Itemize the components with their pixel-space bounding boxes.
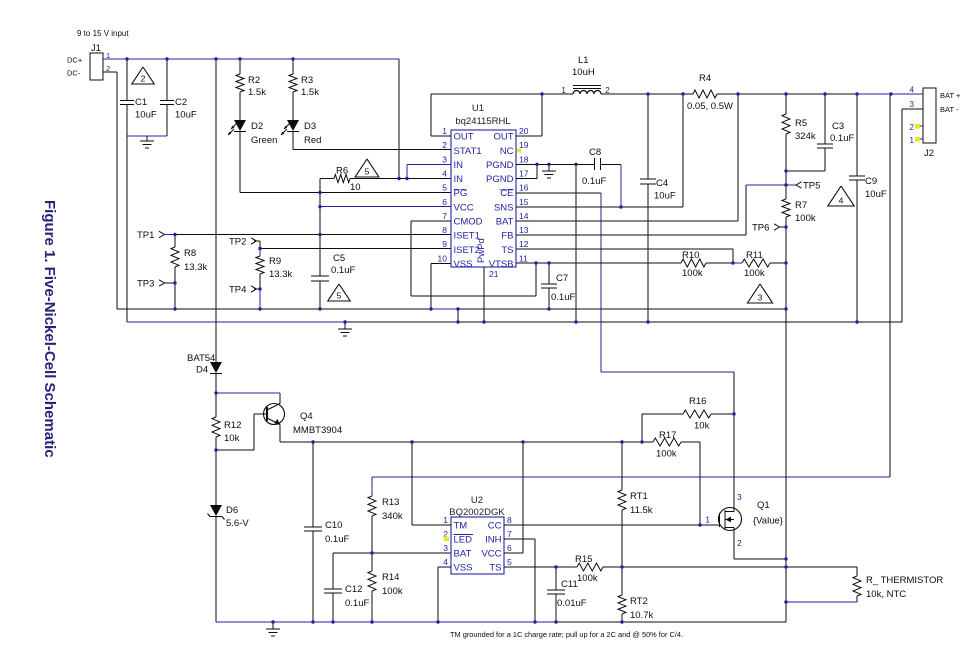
svg-text:1: 1 (443, 515, 448, 525)
svg-text:10uF: 10uF (135, 110, 157, 121)
svg-text:9 to 15 V input: 9 to 15 V input (77, 29, 129, 38)
svg-text:PGND: PGND (486, 160, 514, 171)
resistor R6 (320, 166, 451, 194)
wire C8 to SNS (620, 164, 622, 207)
wire J2 pin4 column (889, 94, 891, 477)
resistor R11 (733, 250, 786, 279)
svg-text:TP5: TP5 (803, 181, 820, 192)
capacitor C12 (324, 584, 369, 622)
svg-text:BAT54: BAT54 (187, 353, 215, 364)
wire bottom gnd bus (216, 621, 786, 623)
svg-text:10k: 10k (224, 433, 240, 444)
ground PGND (542, 164, 556, 178)
svg-text:CC: CC (488, 521, 502, 532)
svg-text:BAT: BAT (454, 549, 472, 560)
svg-text:5: 5 (365, 167, 370, 177)
svg-text:0.1uF: 0.1uF (325, 534, 349, 545)
wire IN pin3 jog (407, 164, 451, 178)
svg-text:324k: 324k (795, 131, 816, 142)
svg-text:TM: TM (454, 521, 468, 532)
wire VSS bus (117, 308, 786, 310)
svg-text:6: 6 (442, 197, 447, 207)
wire R12 to D6 (215, 450, 217, 505)
connector J2 (923, 88, 936, 159)
svg-text:D2: D2 (251, 121, 263, 132)
wire L1 left (431, 93, 573, 95)
op-amp U1 bq24115RHL (438, 103, 529, 279)
svg-text:VSS: VSS (454, 259, 473, 270)
wire STAT1 row (293, 149, 451, 151)
svg-text:FB: FB (501, 231, 513, 242)
svg-text:R16: R16 (689, 396, 706, 407)
wire TM riser (412, 442, 451, 525)
svg-text:NC: NC (500, 146, 514, 157)
svg-text:D6: D6 (226, 505, 238, 516)
wire U1 pin21 stub (483, 267, 485, 322)
svg-text:SNS: SNS (494, 202, 514, 213)
svg-text:11: 11 (519, 253, 528, 263)
J2 pin 3 number (910, 100, 915, 109)
wire CMOD loop (411, 221, 536, 296)
svg-text:20: 20 (519, 126, 529, 136)
svg-text:C11: C11 (561, 579, 578, 590)
resistor R12 (212, 393, 241, 450)
svg-text:{Value}: {Value} (753, 516, 783, 527)
svg-text:Q4: Q4 (300, 411, 313, 422)
svg-text:3: 3 (737, 492, 742, 502)
svg-text:5: 5 (337, 291, 342, 301)
LED D3 (281, 120, 321, 150)
connector J1 (90, 43, 103, 80)
resistor R7 (782, 199, 816, 263)
svg-text:R4: R4 (699, 73, 711, 84)
svg-text:L1: L1 (578, 55, 589, 66)
svg-text:MMBT3904: MMBT3904 (293, 425, 342, 436)
test point TP4 (229, 285, 260, 296)
note TM charge rate (450, 630, 683, 639)
wire VCC riser U2 (504, 442, 523, 553)
svg-text:10: 10 (438, 253, 448, 263)
svg-text:12: 12 (519, 239, 529, 249)
wire VCC row (320, 206, 451, 208)
wire ISET1 row (175, 234, 451, 236)
note triangle 4 (828, 186, 854, 206)
svg-text:C8: C8 (589, 147, 601, 158)
svg-text:10uF: 10uF (865, 189, 887, 200)
svg-text:1: 1 (910, 136, 915, 145)
wire OUT loop (431, 94, 542, 136)
svg-text:J1: J1 (91, 43, 101, 54)
svg-text:Green: Green (251, 135, 277, 146)
svg-text:INH: INH (485, 535, 502, 546)
wire D4 column (215, 59, 217, 362)
svg-text:2: 2 (910, 123, 915, 132)
svg-text:1.5k: 1.5k (248, 87, 266, 98)
svg-text:R9: R9 (269, 256, 281, 267)
svg-text:C12: C12 (345, 584, 362, 595)
capacitor C2 (160, 59, 197, 136)
svg-text:OUT: OUT (493, 132, 513, 143)
svg-text:0.1uF: 0.1uF (331, 265, 355, 276)
svg-text:R7: R7 (795, 200, 807, 211)
resistor R8 (171, 235, 207, 310)
svg-text:14: 14 (519, 211, 529, 221)
svg-text:R17: R17 (659, 430, 676, 441)
svg-text:13.3k: 13.3k (184, 262, 207, 273)
transistor Q1 (705, 492, 783, 548)
wire thermistor return (786, 601, 857, 603)
test point TP6 (752, 223, 786, 234)
wire GND bus (127, 321, 902, 323)
svg-text:C5: C5 (333, 253, 345, 264)
J1 pin 2 number (106, 64, 110, 73)
svg-text:TS: TS (489, 563, 501, 574)
svg-text:Red: Red (304, 135, 321, 146)
wire TS row U1 (516, 249, 733, 263)
note triangle 2 (132, 67, 154, 84)
svg-text:CMOD: CMOD (454, 217, 483, 228)
svg-text:R10: R10 (682, 250, 699, 261)
test point TP5 (786, 181, 820, 192)
svg-text:C10: C10 (325, 520, 342, 531)
wire FB column mid (785, 309, 787, 477)
svg-text:7: 7 (442, 211, 447, 221)
svg-text:5.6-V: 5.6-V (226, 518, 249, 529)
wire R11 column to bus (785, 263, 787, 309)
svg-text:C7: C7 (556, 273, 568, 284)
wire VTSB row (516, 262, 681, 264)
svg-text:LED: LED (454, 535, 473, 546)
resistor R10 (681, 250, 733, 279)
svg-text:18: 18 (519, 154, 529, 164)
svg-text:0.05, 0.5W: 0.05, 0.5W (687, 101, 733, 112)
test point TP2 (229, 237, 260, 249)
wire TS row U2 (504, 566, 786, 568)
svg-text:R_ THERMISTOR: R_ THERMISTOR (866, 575, 943, 586)
resistor R4 (687, 73, 733, 112)
svg-text:DC-: DC- (67, 69, 81, 78)
svg-text:2: 2 (737, 538, 742, 548)
svg-text:OUT: OUT (454, 132, 474, 143)
figure title (41, 200, 58, 458)
label DC+ (67, 56, 83, 65)
svg-text:TP2: TP2 (229, 237, 246, 248)
svg-text:100k: 100k (682, 268, 703, 279)
svg-text:PG: PG (454, 188, 468, 199)
svg-text:15: 15 (519, 197, 529, 207)
capacitor C5 (311, 193, 355, 310)
svg-text:RT1: RT1 (630, 491, 648, 502)
svg-text:100k: 100k (744, 268, 765, 279)
svg-text:R11: R11 (746, 250, 763, 261)
wire PG row (240, 192, 451, 194)
svg-text:0.1uF: 0.1uF (345, 598, 369, 609)
wire J2 pin3 (902, 109, 923, 322)
svg-text:R13: R13 (382, 497, 399, 508)
wire U1 VSS pin10 (431, 263, 451, 309)
svg-text:U2: U2 (471, 495, 483, 506)
note triangle 5 at C5 (328, 284, 350, 301)
svg-text:5: 5 (442, 183, 447, 193)
svg-text:1.5k: 1.5k (301, 87, 319, 98)
wire Q4 base (216, 414, 254, 450)
diode D6 zener (208, 505, 250, 622)
capacitor C8 (582, 147, 606, 187)
ground input caps (140, 136, 154, 148)
svg-text:16: 16 (519, 183, 529, 193)
capacitor C4 (640, 94, 676, 322)
transistor Q4 (254, 404, 342, 443)
wire Q1 source column (785, 477, 787, 622)
capacitor C1 (120, 59, 157, 136)
J1 pin 1 number (106, 51, 110, 60)
svg-text:8: 8 (442, 225, 447, 235)
svg-text:100k: 100k (382, 586, 403, 597)
svg-text:TP1: TP1 (137, 230, 154, 241)
diode D4 BAT54 (187, 353, 222, 393)
svg-text:0.01uF: 0.01uF (557, 598, 587, 609)
wire VSS bus jog (457, 309, 459, 322)
svg-text:10.7k: 10.7k (630, 610, 653, 621)
svg-text:4: 4 (839, 196, 844, 206)
resistor R2 (236, 59, 266, 120)
resistor RT1 (618, 442, 653, 567)
wire CE drop (516, 193, 734, 372)
wire ISET2 row (260, 248, 451, 250)
svg-text:17: 17 (519, 168, 529, 178)
inductor L1 (561, 55, 610, 95)
label BAT+ (940, 91, 961, 100)
resistor RT2 (618, 567, 653, 622)
resistor R5 (782, 94, 816, 171)
J2 pin 2 number (910, 123, 915, 132)
svg-text:C2: C2 (175, 97, 187, 108)
svg-text:TP6: TP6 (752, 223, 769, 234)
wire BAT row U2 (333, 553, 451, 589)
svg-text:R15: R15 (575, 554, 592, 565)
resistor R15 (575, 554, 603, 584)
svg-text:4: 4 (442, 168, 447, 178)
svg-text:C3: C3 (832, 121, 844, 132)
svg-text:TS: TS (501, 245, 513, 256)
svg-text:1: 1 (442, 126, 447, 136)
svg-text:10k, NTC: 10k, NTC (866, 589, 906, 600)
svg-text:RT2: RT2 (630, 596, 648, 607)
svg-text:2: 2 (442, 140, 447, 150)
wire R4 to J2 (717, 93, 923, 95)
svg-text:340k: 340k (382, 511, 403, 522)
svg-text:7: 7 (507, 529, 512, 539)
svg-text:4: 4 (443, 557, 448, 567)
wire DC+ rail (103, 58, 399, 60)
svg-text:TM grounded for a 1C charge ra: TM grounded for a 1C charge rate; pull u… (450, 630, 683, 639)
svg-text:C4: C4 (656, 178, 668, 189)
resistor R17 (653, 430, 681, 460)
svg-text:PwPd: PwPd (476, 238, 487, 263)
svg-text:STAT1: STAT1 (454, 146, 482, 157)
svg-text:R6: R6 (336, 166, 348, 177)
svg-text:VSS: VSS (454, 563, 473, 574)
wire PGND row (516, 164, 621, 178)
svg-text:bq24115RHL: bq24115RHL (455, 116, 510, 127)
wire Q4 emitter node (280, 441, 653, 443)
resistor R3 (289, 59, 319, 120)
wire PGND column (575, 164, 577, 322)
svg-text:10uH: 10uH (572, 67, 595, 78)
svg-text:C9: C9 (865, 176, 877, 187)
wire Q1 source (734, 530, 786, 559)
svg-text:1: 1 (705, 515, 710, 525)
wire C1-C2 bottom (127, 135, 167, 137)
svg-text:Figure 1. Five-Nickel-Cell Sch: Figure 1. Five-Nickel-Cell Schematic (41, 200, 58, 458)
wire IN riser (398, 59, 400, 179)
J2 pin 4 number (910, 86, 915, 95)
label DC- (67, 69, 81, 78)
svg-text:13: 13 (519, 225, 529, 235)
svg-text:100k: 100k (577, 573, 598, 584)
svg-text:3: 3 (442, 154, 447, 164)
svg-text:R14: R14 (382, 572, 399, 583)
svg-text:Q1: Q1 (757, 500, 770, 511)
test point TP1 (137, 230, 175, 241)
svg-text:BAT -: BAT - (940, 105, 959, 114)
svg-text:R12: R12 (224, 420, 241, 431)
svg-text:10k: 10k (694, 421, 710, 432)
svg-text:PGND: PGND (486, 174, 514, 185)
svg-text:VCC: VCC (454, 202, 474, 213)
svg-text:100k: 100k (656, 449, 677, 460)
svg-text:BAT: BAT (496, 217, 514, 228)
svg-text:U1: U1 (472, 103, 484, 114)
capacitor C11 (547, 567, 587, 622)
wire main node right (681, 442, 700, 525)
wire D4 to Q4 collector (216, 393, 280, 404)
svg-text:D4: D4 (196, 365, 208, 376)
svg-text:2: 2 (141, 74, 146, 84)
LED D2 (228, 120, 277, 193)
svg-text:CE: CE (500, 188, 513, 199)
svg-text:21: 21 (489, 269, 499, 279)
op-amp U2 BQ2002DGK (443, 495, 512, 574)
capacitor C3 (786, 94, 854, 171)
note triangle 5 at R6 (355, 159, 379, 177)
svg-text:3: 3 (910, 100, 915, 109)
wire TS to thermistor (786, 567, 857, 576)
wire FB column (785, 171, 787, 199)
ground mid bus (338, 322, 352, 336)
wire R9 bottom (259, 289, 261, 309)
svg-text:R8: R8 (184, 248, 196, 259)
wire gnd rail drop (126, 136, 128, 322)
svg-text:TP4: TP4 (229, 285, 246, 296)
resistor R_THERMISTOR (853, 575, 943, 602)
svg-text:IN: IN (454, 174, 464, 185)
svg-text:3: 3 (758, 293, 763, 303)
label BAT- (940, 105, 959, 114)
svg-text:BQ2002DGK: BQ2002DGK (449, 507, 505, 518)
svg-text:100k: 100k (795, 213, 816, 224)
resistor R14 (368, 553, 403, 622)
svg-text:D3: D3 (304, 121, 316, 132)
resistor R9 (256, 249, 292, 290)
svg-text:DC+: DC+ (67, 56, 83, 65)
wire CC row (504, 524, 719, 526)
svg-text:6: 6 (507, 543, 512, 553)
svg-text:8: 8 (507, 515, 512, 525)
svg-text:10: 10 (350, 182, 361, 193)
svg-text:0.1uF: 0.1uF (551, 292, 575, 303)
wire VSS U2 (438, 567, 451, 622)
test point TP3 (137, 279, 175, 290)
wire FB row (516, 185, 786, 235)
resistor R16 (642, 396, 734, 442)
capacitor C7 (541, 263, 575, 309)
capacitor C9 (849, 94, 887, 322)
wire SNS row (516, 94, 683, 207)
svg-text:0.1uF: 0.1uF (830, 133, 854, 144)
resistor R13 (368, 477, 403, 553)
note triangle 3 (747, 284, 772, 303)
svg-text:3: 3 (443, 543, 448, 553)
wire bq top blue (372, 476, 890, 478)
svg-text:1: 1 (561, 85, 566, 95)
svg-text:10uF: 10uF (654, 191, 676, 202)
svg-text:9: 9 (442, 239, 447, 249)
svg-text:TP3: TP3 (137, 279, 154, 290)
svg-text:13.3k: 13.3k (269, 269, 292, 280)
wire CE to Q1 drain (733, 372, 735, 509)
svg-text:R5: R5 (795, 118, 807, 129)
svg-text:10uF: 10uF (175, 110, 197, 121)
wire INH drop (504, 539, 535, 622)
svg-text:R2: R2 (248, 75, 260, 86)
svg-text:IN: IN (454, 160, 464, 171)
svg-text:0.1uF: 0.1uF (582, 176, 606, 187)
svg-text:C1: C1 (135, 97, 147, 108)
wire L1 to R4 (601, 93, 693, 95)
J2 pin2 stub (915, 124, 923, 129)
J2 pin1 stub (915, 137, 923, 142)
wire BAT row (516, 94, 738, 221)
svg-text:4: 4 (910, 86, 915, 95)
wire J1 pin2 to DC- rail (103, 72, 117, 309)
ground bottom bus (266, 622, 280, 636)
svg-text:VCC: VCC (481, 549, 501, 560)
label 9 to 15 V input (77, 29, 129, 38)
svg-text:J2: J2 (924, 148, 934, 159)
svg-text:5: 5 (507, 557, 512, 567)
svg-text:R3: R3 (301, 75, 313, 86)
svg-text:11.5k: 11.5k (630, 505, 653, 516)
svg-text:BAT +: BAT + (940, 91, 961, 100)
capacitor C10 (304, 442, 349, 622)
J2 pin 1 number (910, 136, 915, 145)
